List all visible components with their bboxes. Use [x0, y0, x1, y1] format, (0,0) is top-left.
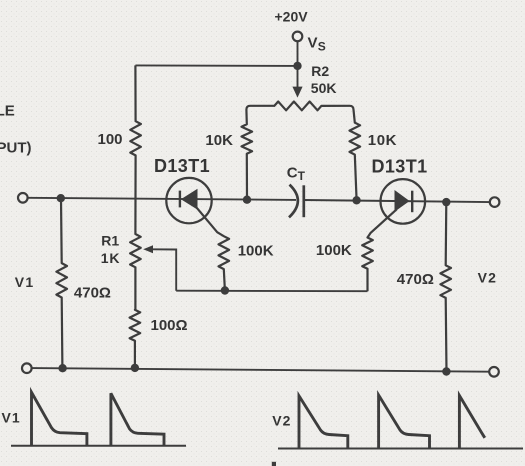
wire: bottom horizontal rail — [32, 368, 489, 372]
resistor 100K right with gate lead — [362, 209, 397, 291]
artifact tick bottom center — [272, 462, 276, 466]
svg-text:C: C — [287, 165, 298, 182]
wire: gate bus between 100K bottoms — [176, 290, 367, 293]
terminal: Vs supply — [293, 32, 303, 42]
potentiometer R2 50K with 10K resistors on both legs — [242, 102, 361, 201]
svg-text:LE: LE — [0, 103, 15, 120]
svg-text:R2: R2 — [311, 63, 329, 79]
V2 waveform pulse 3 (cut off) — [459, 396, 484, 449]
node: 470R bottom — [442, 367, 450, 375]
svg-text:V2: V2 — [272, 412, 291, 428]
svg-text:100: 100 — [98, 131, 123, 148]
transistor Q2 D13T1 (right) circle — [381, 179, 426, 224]
svg-text:100K: 100K — [238, 242, 274, 259]
svg-text:D13T1: D13T1 — [154, 156, 210, 176]
terminal: left bottom — [22, 363, 32, 373]
potentiometer R1 wiper arrow — [153, 249, 177, 290]
node: rail bottom — [131, 364, 139, 372]
svg-text:PUT): PUT) — [0, 139, 32, 156]
svg-text:V1: V1 — [15, 274, 35, 290]
svg-text:V: V — [308, 35, 318, 52]
transistor Q2 arrow (points right) — [395, 190, 410, 212]
svg-text:V1: V1 — [2, 410, 21, 426]
V1 waveform pulse 1 — [32, 392, 87, 445]
svg-text:V2: V2 — [478, 270, 498, 286]
V2 waveform pulse 1 — [299, 396, 348, 448]
wire: top rail from 100-resistor to Vs junction — [135, 64, 297, 67]
resistor 470 ohm right (with leads) — [440, 202, 451, 371]
node: 470L bottom — [58, 364, 66, 372]
transistor Q2 cathode bar — [411, 191, 413, 213]
node: Vs junction — [293, 62, 301, 70]
wire: Vs terminal stem — [297, 42, 299, 66]
transistor Q1 arrow (points left) — [181, 189, 198, 210]
node: 470L top — [57, 194, 65, 202]
V2 waveform pulse 2 — [379, 395, 430, 448]
terminal: output right top — [490, 197, 500, 207]
svg-text:470Ω: 470Ω — [397, 271, 434, 288]
svg-text:10K: 10K — [205, 132, 233, 149]
svg-text:10K: 10K — [368, 132, 397, 149]
transistor Q1 cathode bar — [179, 191, 181, 208]
node: 10KR bottom — [352, 196, 360, 204]
svg-text:D13T1: D13T1 — [372, 156, 428, 176]
terminal: output left top — [18, 193, 28, 203]
svg-text:1K: 1K — [101, 250, 121, 266]
capacitor CT curved plate — [289, 185, 298, 218]
node: 100KL bottom — [221, 286, 229, 294]
svg-text:T: T — [298, 169, 306, 183]
node: 10KL bottom — [243, 196, 251, 204]
svg-text:S: S — [318, 39, 326, 53]
svg-text:100K: 100K — [316, 242, 352, 259]
svg-text:50K: 50K — [311, 80, 337, 96]
V1 waveform pulse 2 — [111, 393, 164, 445]
node: V2 tap — [442, 198, 450, 206]
wire: main horizontal rail (right of capacitor CT) — [304, 200, 490, 202]
capacitor CT straight plate — [302, 185, 305, 217]
resistor 470 ohm left (with leads) — [56, 198, 67, 368]
svg-text:470Ω: 470Ω — [74, 284, 111, 301]
svg-text:+20V: +20V — [275, 9, 309, 25]
V2 waveform axis — [278, 448, 523, 450]
wire: Vs junction down to R2 wiper arrow — [297, 66, 299, 89]
terminal: right bottom — [489, 367, 499, 377]
resistor 100K left with gate lead and bottom lead — [193, 204, 229, 291]
V1 waveform axis — [11, 445, 186, 447]
svg-text:100Ω: 100Ω — [151, 317, 188, 334]
wire: main horizontal rail (left of capacitor CT) — [28, 198, 296, 200]
resistor 100 (top left, with leads; rail continues through R1 and 100-ohm) — [130, 65, 141, 368]
svg-text:R1: R1 — [101, 233, 119, 249]
transistor Q1 D13T1 (left) circle — [166, 178, 211, 223]
